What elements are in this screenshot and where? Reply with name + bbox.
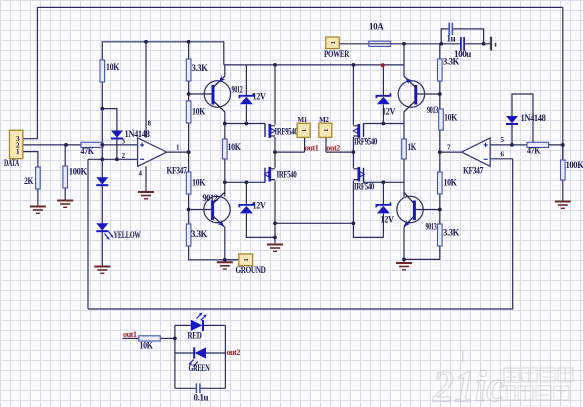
wire U2 +in line [490, 144, 563, 146]
wire right driver ground link [404, 246, 440, 259]
wire U1 pin4 to ground [145, 166, 147, 191]
svg-text:KF347: KF347 [167, 166, 188, 176]
svg-text:M2: M2 [319, 116, 329, 124]
wire 10K R4 column [101, 82, 103, 266]
wire driver column right [439, 44, 441, 224]
wire zener DW4 leads [382, 182, 384, 237]
fuse F1 10A [369, 22, 391, 47]
port POWER [324, 37, 350, 59]
wire out1 net stub [123, 337, 139, 339]
svg-text:2K: 2K [24, 176, 33, 186]
resistor R1 2K [24, 167, 40, 189]
svg-text:10K: 10K [192, 107, 205, 117]
svg-text:10K: 10K [192, 178, 205, 188]
Q2 collector diagonal [213, 192, 225, 204]
resistor R10 1K [402, 139, 417, 159]
svg-text:9012: 9012 [203, 193, 219, 203]
wire Q4 emitter to ground [403, 227, 405, 263]
svg-text:1: 1 [16, 148, 20, 156]
svg-text:out2: out2 [227, 347, 241, 357]
MOSFET M1 IRF9540 [265, 124, 298, 138]
junction node 24 [402, 42, 406, 46]
wire M1 source to V+ [274, 65, 276, 125]
wire DATA pin 2 to op-amp U1 +in [23, 144, 138, 146]
svg-text:KF347: KF347 [463, 166, 484, 176]
junction node 23 [382, 180, 386, 184]
svg-text:12V: 12V [253, 201, 267, 211]
svg-text:3.3K: 3.3K [191, 229, 207, 239]
connector J1 DATA [4, 130, 23, 168]
junction node 17 [273, 221, 277, 225]
junction node 2 [100, 107, 104, 111]
resistor R4 10K [100, 60, 119, 82]
junction node 28 [438, 208, 442, 212]
svg-text:1N4148: 1N4148 [521, 113, 547, 123]
junction node 5 [144, 40, 148, 44]
svg-text:47K: 47K [527, 146, 540, 156]
junction node 7 [187, 92, 191, 96]
ground below zener DW2 [267, 245, 283, 252]
ground lower driver left [217, 262, 233, 269]
junction node 8 [187, 150, 191, 154]
capacitor C1 1u [447, 23, 456, 44]
junction node 30 [482, 42, 486, 46]
svg-text:DATA: DATA [4, 158, 20, 168]
resistor R6 10K [186, 101, 205, 123]
resistor R5 3.3K [186, 59, 208, 81]
capacitor C2 100u [454, 37, 471, 59]
svg-text:1: 1 [176, 144, 180, 152]
junction node 21 [352, 221, 356, 225]
svg-text:3.3K: 3.3K [443, 57, 459, 67]
ground below R2 [57, 201, 73, 208]
svg-text:3: 3 [122, 138, 126, 146]
wire LED box top edge [175, 324, 226, 326]
svg-text:5: 5 [501, 136, 505, 144]
port M1 [297, 123, 310, 137]
Q4 emitter diagonal [402, 216, 415, 229]
wire diode D2 lead [511, 124, 513, 144]
svg-text:21ic: 21ic [432, 362, 505, 407]
svg-text:IRF9540: IRF9540 [354, 137, 378, 147]
svg-text:9013: 9013 [426, 222, 438, 232]
svg-text:POWER: POWER [324, 49, 350, 59]
wire gate bus upper right [363, 123, 403, 125]
svg-text:9012: 9012 [232, 85, 244, 95]
op-amp U2 KF347 [462, 138, 491, 166]
LED DS1 arrows [105, 232, 114, 240]
wire D1 cathode to -in [116, 139, 118, 160]
wire 1n bypass bridge [441, 29, 483, 44]
wire driver column left [189, 42, 239, 260]
resistor R9 3.3K [186, 224, 207, 246]
junction node 31 [510, 143, 514, 147]
svg-text:0.1u: 0.1u [194, 393, 209, 403]
wire Q1 collector lead [224, 112, 226, 139]
junction node 34 [100, 157, 104, 161]
wire top-right drop [562, 7, 564, 160]
resistor R11 3.3K [438, 57, 460, 82]
MOSFET M2 IRF540 [264, 167, 297, 182]
svg-text:GROUND: GROUND [236, 265, 267, 275]
svg-text:10A: 10A [369, 22, 384, 32]
svg-text:1: 1 [330, 41, 337, 44]
junction node 25 [402, 258, 406, 262]
wire LED box left edge [174, 325, 176, 388]
junction node 3 [100, 143, 104, 147]
svg-text:10K: 10K [444, 113, 457, 123]
svg-text:YELLOW: YELLOW [114, 230, 141, 240]
wire U2 -in line [490, 158, 513, 160]
Q4 collector diagonal [404, 192, 414, 204]
zener DW3 12V [376, 93, 395, 116]
wire out2 to port M2 [326, 137, 353, 152]
svg-text:100K: 100K [566, 160, 583, 170]
ground U1 pin4 [138, 192, 154, 199]
LED DS2 arrows [197, 313, 207, 321]
svg-text:IRF9540: IRF9540 [275, 127, 299, 137]
zener DW1 12V [239, 92, 266, 105]
transistor Q1 9012 [204, 81, 230, 107]
svg-text:4: 4 [139, 170, 143, 178]
ground below R1 [30, 207, 46, 214]
zener DW2 12V [239, 201, 266, 214]
junction node 15 [273, 63, 277, 67]
wire GROUND port stub [225, 259, 239, 261]
LED DS3 arrows [189, 360, 198, 368]
resistor R14 3.3K [438, 224, 460, 246]
wire cross-feedback bottom [88, 159, 513, 309]
junction node 19 [352, 63, 356, 67]
LED DS2 RED [191, 320, 203, 331]
Q2 emitter diagonal [213, 216, 227, 229]
svg-text:GREEN: GREEN [189, 363, 211, 373]
wire Q3 emitter lead [403, 65, 405, 76]
diode D1 1N4148 [111, 129, 150, 139]
MOSFET M3 IRF9540 [353, 124, 377, 147]
junction node 6 [187, 40, 191, 44]
wire M4 source down [353, 181, 383, 238]
wire U1 pin8 supply [145, 42, 147, 138]
resistor R7 10K gate [223, 139, 241, 159]
resistor R2 100K [63, 166, 87, 188]
junction node V+ red [381, 63, 385, 67]
svg-text:12V: 12V [381, 215, 395, 225]
wire DATA pin 1 to 2K [23, 152, 38, 167]
wire Q1 emitter lead [224, 65, 226, 76]
transistor Q2 9012 [204, 196, 230, 222]
svg-text:1: 1 [301, 129, 308, 132]
wire top rail [37, 6, 562, 8]
wire LED box bottom edge [175, 387, 226, 389]
junction node 11 [223, 180, 227, 184]
wire U1 output [167, 151, 189, 153]
wire out1 to port M1 [275, 137, 305, 152]
svg-text:3.3K: 3.3K [443, 228, 459, 238]
svg-text:10K: 10K [140, 341, 153, 351]
junction node 1 [64, 143, 68, 147]
resistor R12 10K [439, 109, 458, 130]
resistor R15 47K [527, 142, 549, 155]
diode D2 1N4148 [506, 113, 546, 124]
wire M4 drain [352, 152, 354, 168]
svg-text:RED: RED [188, 331, 203, 341]
LED DS1 YELLOW [96, 223, 108, 231]
wire base Q3 [416, 93, 440, 95]
junction node 27 [438, 150, 442, 154]
MOSFET M4 IRF540 [353, 167, 374, 192]
svg-text:6: 6 [501, 151, 505, 159]
wire base Q1 [189, 93, 213, 95]
wire 100K R16 leads [562, 145, 564, 202]
svg-text:1K: 1K [408, 142, 417, 152]
svg-text:8: 8 [148, 120, 152, 128]
svg-text:100K: 100K [69, 167, 87, 177]
ground below DS1 [94, 267, 110, 274]
junction node 32 [561, 143, 565, 147]
resistor R16 100K [561, 160, 583, 180]
wire M2 drain from out1 [274, 152, 276, 168]
svg-text:out1: out1 [305, 143, 319, 153]
svg-text:M1: M1 [298, 116, 308, 124]
junction node 26 [438, 92, 442, 96]
wire base Q2 [189, 209, 213, 211]
wire M3 source to V+ [352, 65, 354, 125]
LED DS3 GREEN [194, 347, 206, 358]
wire base Q4 [415, 209, 440, 211]
junction node 10 [223, 122, 227, 126]
wire -in line [88, 158, 138, 160]
svg-text:2: 2 [122, 152, 126, 160]
wire POWER to fuse [339, 43, 369, 45]
svg-text:IRF540: IRF540 [277, 170, 298, 180]
svg-text:1: 1 [243, 258, 250, 261]
Q3 emitter diagonal [403, 76, 415, 88]
capacitor C3 0.1u [194, 383, 209, 402]
zener DW4 12V [376, 202, 394, 224]
svg-text:out2: out2 [326, 143, 340, 153]
junction node 18 [273, 236, 277, 240]
wire gate bus upper left [225, 123, 265, 125]
ground below R16 [555, 202, 571, 209]
wire M2 source down [274, 181, 276, 245]
wire M3 drain to out2 [352, 137, 354, 152]
svg-text:1u: 1u [447, 34, 456, 44]
svg-text:12V: 12V [253, 92, 267, 102]
wire zener DW2 leads [246, 182, 275, 237]
Q1 collector diagonal [213, 101, 225, 112]
svg-text:10K: 10K [228, 142, 241, 152]
wire diode D1 branch [102, 109, 117, 131]
svg-text:IRF540: IRF540 [354, 182, 375, 192]
wire gate bus lower left [225, 181, 265, 183]
terminator bar [491, 37, 496, 51]
wire 10K R7 to lower gate [224, 159, 226, 197]
diode D5 clamp [96, 177, 108, 185]
wire D2 bypass hook [512, 94, 533, 142]
junction node 16 [273, 150, 277, 154]
resistor R13 10K [438, 172, 457, 194]
svg-text:12V: 12V [382, 107, 396, 117]
junction node 13 [245, 122, 249, 126]
junction node 22 [382, 122, 386, 126]
wire 100K R3 leads [64, 145, 66, 200]
wire LED box right edge [224, 325, 226, 388]
transistor Q3 9013 [398, 81, 424, 107]
junction node 29 [439, 42, 443, 46]
resistor R3 47K [81, 142, 103, 156]
svg-text:9013: 9013 [427, 105, 439, 115]
wire top-left drop to DATA pin 3 [23, 7, 38, 138]
resistor R17 10K [139, 336, 161, 351]
wire 1K to lower gate [403, 159, 405, 197]
wire feedback drop left [87, 159, 89, 309]
wire fuse node to emitter column [403, 44, 405, 65]
wire Q2 emitter to ground [224, 227, 226, 262]
wire 10K R17 to LED box [160, 337, 175, 339]
op-amp U1 KF347 [138, 138, 167, 166]
wire fuse to caps [391, 43, 461, 45]
wire Q3 collector lead [403, 112, 405, 139]
ground lower driver right [396, 263, 412, 270]
wire caps to terminator [465, 43, 491, 45]
svg-text:47K: 47K [81, 146, 94, 156]
svg-text:out1: out1 [123, 329, 137, 339]
junction node 33 [173, 337, 177, 341]
watermark [432, 350, 573, 407]
junction node 4 [115, 157, 119, 161]
wire V+ rail [224, 64, 404, 66]
svg-text:1: 1 [323, 129, 330, 132]
Q3 collector diagonal [404, 101, 416, 112]
svg-text:10K: 10K [106, 62, 119, 72]
wire U2 output [440, 151, 462, 153]
wire 2K to ground [37, 189, 39, 206]
svg-text:7: 7 [447, 144, 451, 152]
wire LED box middle edge [175, 352, 226, 354]
wire zener DW3 leads [382, 65, 384, 123]
wire gate bus lower right [363, 181, 403, 183]
port GROUND [236, 254, 267, 275]
wire source rail [275, 222, 353, 224]
svg-text:10K: 10K [444, 178, 457, 188]
transistor Q4 9013 [397, 196, 423, 222]
resistor R8 10K [186, 172, 205, 194]
port M2 [319, 123, 332, 137]
wire M1 drain to out1 [274, 137, 276, 152]
wire op-amp supply rail [102, 42, 224, 65]
junction node 12 [223, 258, 227, 262]
wire zener DW1 leads [245, 65, 247, 124]
svg-text:3.3K: 3.3K [192, 63, 208, 73]
Q1 emitter diagonal [213, 75, 225, 87]
junction node 9 [187, 208, 191, 212]
junction node 14 [245, 180, 249, 184]
junction node 20 [352, 150, 356, 154]
